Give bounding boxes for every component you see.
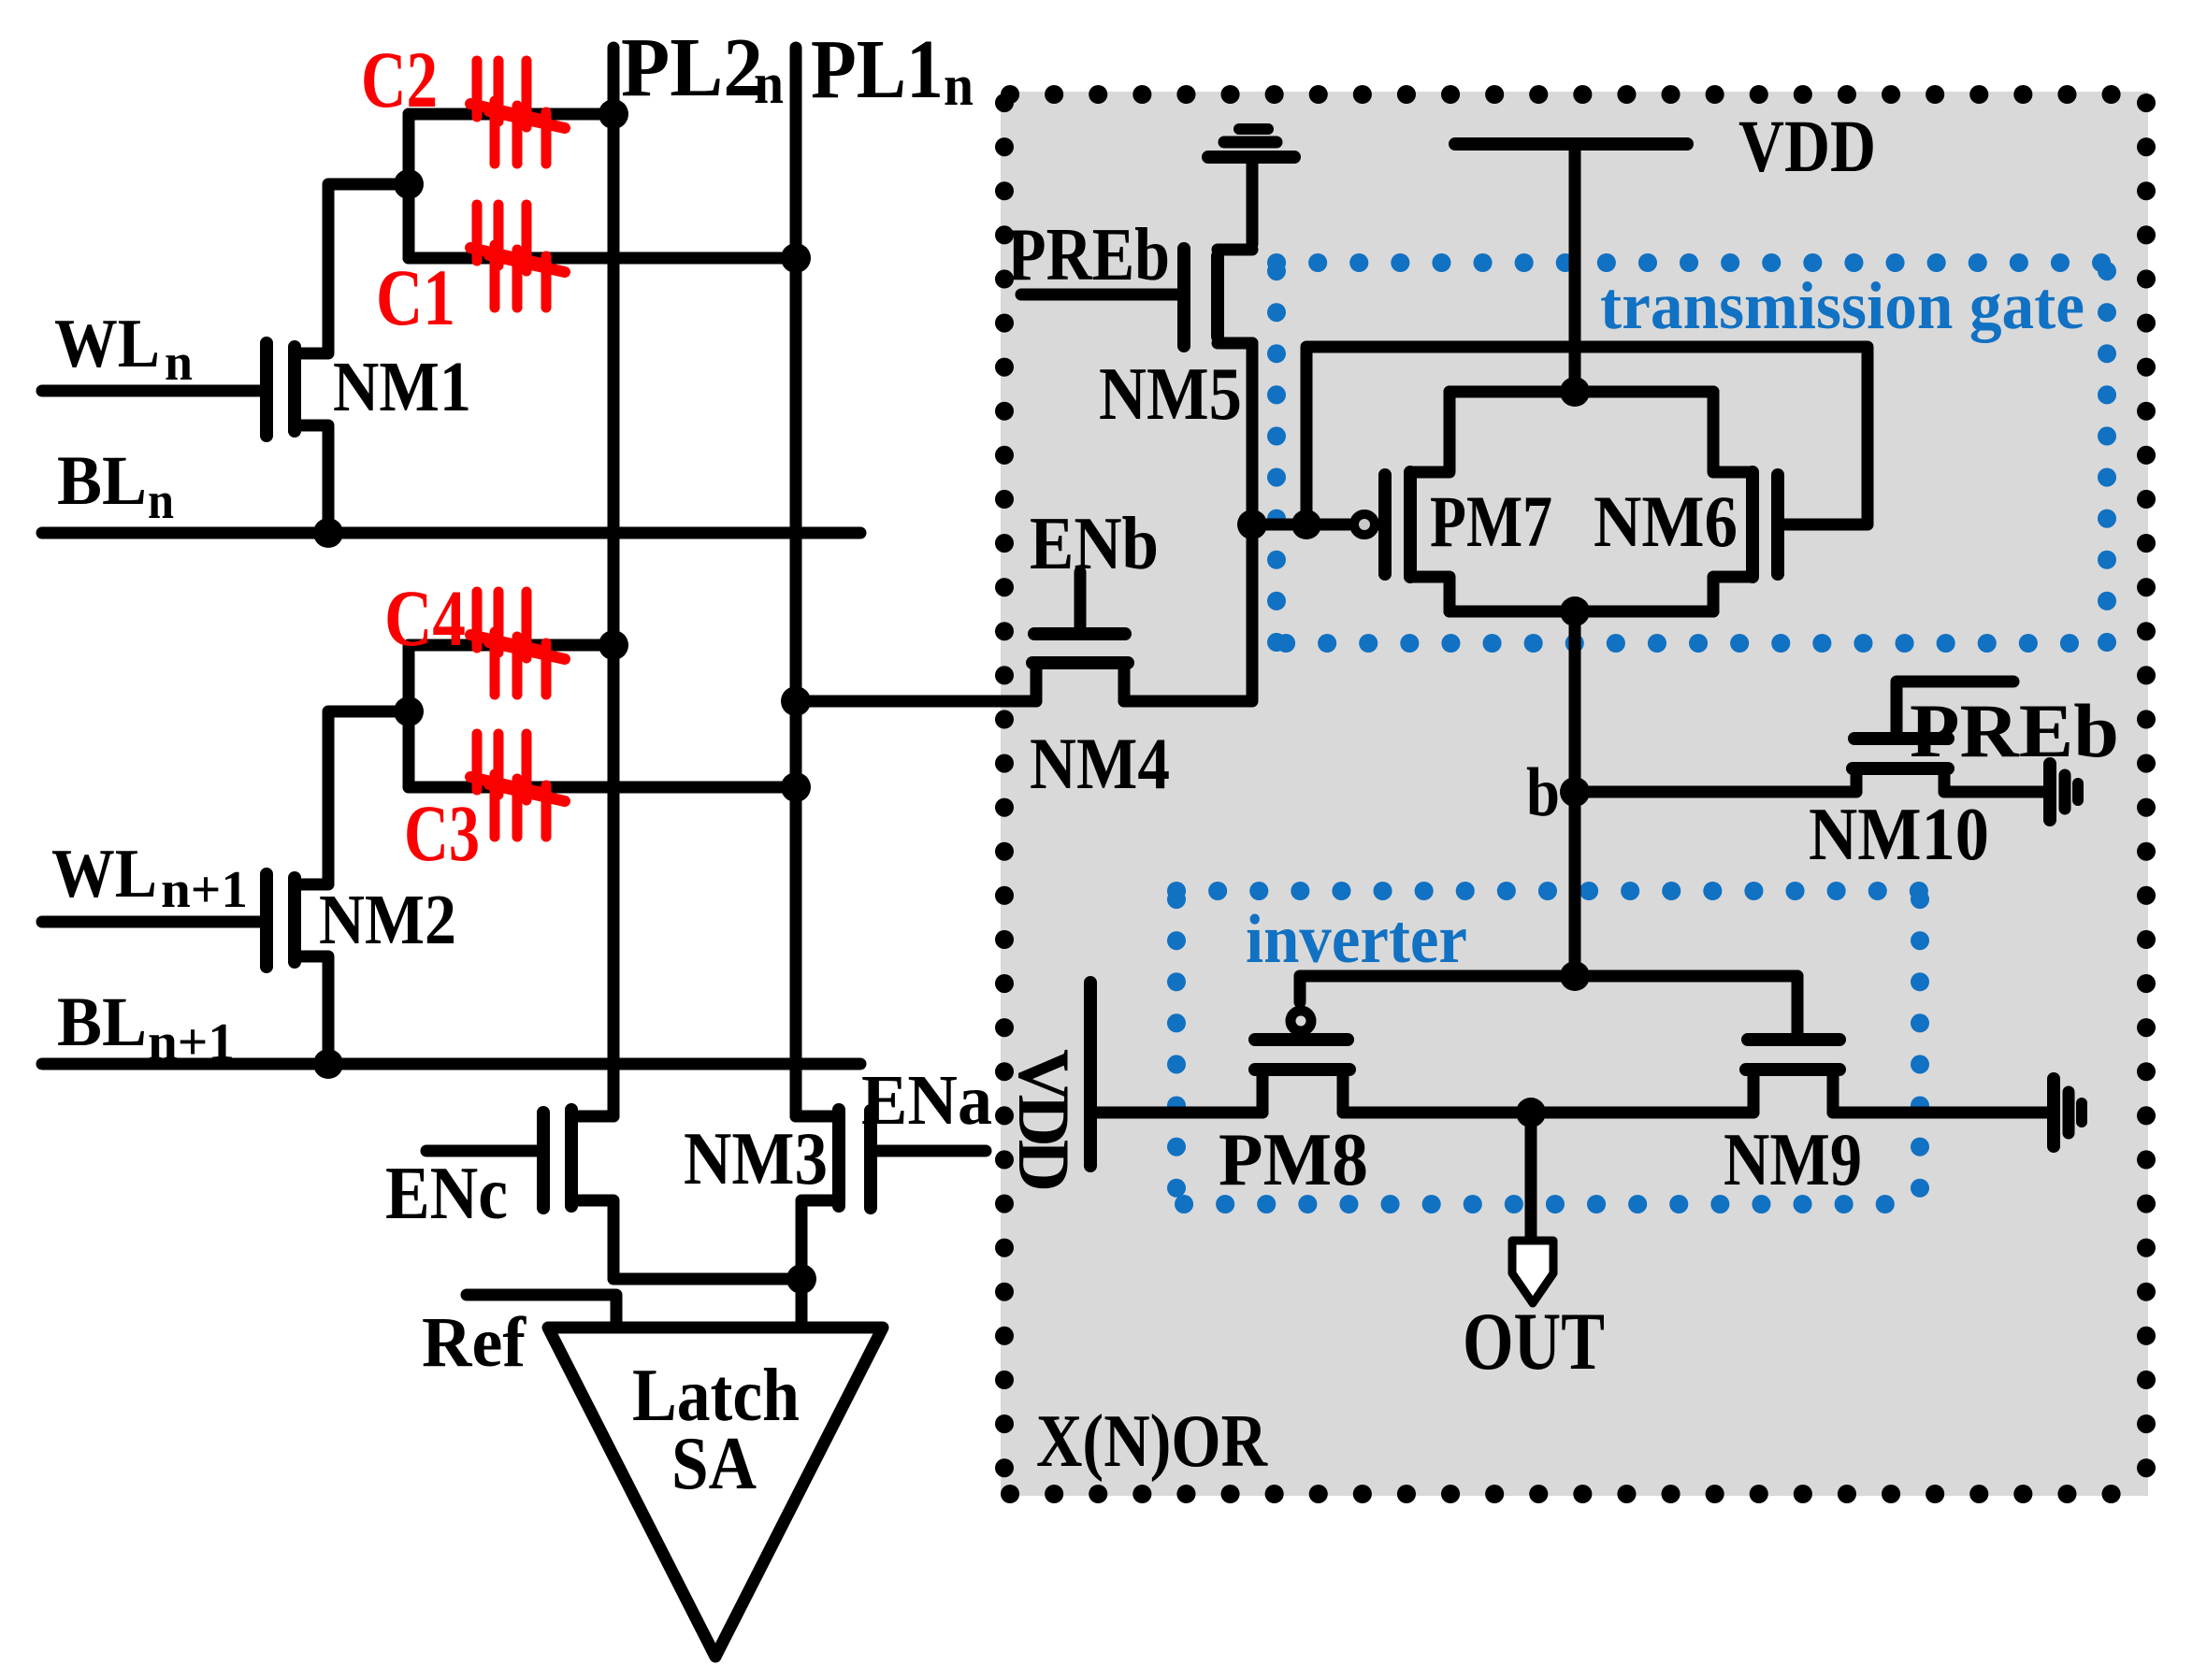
svg-text:PREb: PREb	[1910, 688, 2119, 773]
wire NM1 source to BLn	[295, 425, 328, 533]
wire C3 row to PL1n	[409, 782, 796, 794]
wire PM8 drain step	[1337, 1070, 1349, 1113]
svg-text:Ref: Ref	[422, 1303, 527, 1382]
transistor NM10 gate bar	[1854, 732, 1948, 745]
transistor PM8 channel bar	[1255, 1063, 1349, 1076]
svg-text:OUT: OUT	[1463, 1297, 1605, 1387]
svg-text:NM3: NM3	[684, 1118, 828, 1200]
transistor NM1 channel bar	[288, 347, 301, 431]
transistor NM10 channel bar	[1853, 762, 1948, 775]
wire C1 row to PL1n	[409, 252, 796, 265]
ground symbol right of NM9	[2047, 1079, 2060, 1146]
node junction inverter input	[1560, 961, 1590, 991]
transistor NM4 channel bar	[1032, 656, 1128, 669]
wire NM10 source step	[1851, 768, 1863, 792]
wire NM9 drain step	[1827, 1070, 1839, 1113]
svg-text:n: n	[148, 472, 174, 530]
wire NM5 source step	[1218, 337, 1252, 350]
wire word line WLn	[42, 385, 261, 397]
node junction C3 on PL1n	[781, 772, 811, 802]
svg-text:n: n	[165, 334, 193, 392]
node junction sense wire on PL1n	[781, 686, 811, 716]
svg-text:PM8: PM8	[1219, 1119, 1368, 1201]
wire C4 row to PL2n	[409, 639, 613, 652]
transistor NM5 channel bar	[1211, 256, 1224, 337]
wire NM9 gate stem	[1792, 976, 1804, 1034]
wire ENb gate stem	[1075, 572, 1087, 626]
wire NM6 gate lead	[1778, 519, 1868, 531]
wire NM10 drain to ground	[1944, 786, 2044, 798]
node junction a left	[1237, 510, 1267, 539]
capacitor C3	[470, 734, 565, 837]
svg-text:NM6: NM6	[1594, 481, 1738, 562]
wire VDD stem to transmission gate	[1569, 144, 1581, 392]
wire sense node from PL1n to NM4	[796, 696, 1036, 708]
wire NM4 drain step	[1118, 663, 1131, 701]
svg-text:n+1: n+1	[148, 1013, 235, 1071]
svg-text:NM5: NM5	[1099, 353, 1242, 436]
wire PREb gate lead of NM5	[1021, 289, 1178, 301]
svg-text:inverter: inverter	[1246, 901, 1467, 978]
wire NM3 left source step	[571, 1200, 801, 1279]
svg-text:NM10: NM10	[1809, 794, 1989, 876]
wire NM4 source step	[1031, 663, 1043, 701]
wire PM8 gate stem	[1294, 976, 1306, 1002]
transmission gate dotted box	[1277, 263, 2107, 643]
svg-text:PL1: PL1	[811, 23, 944, 116]
wire OUT stem	[1525, 1113, 1537, 1241]
wire PREb gate lead of NM10	[1897, 682, 2013, 739]
X(N)OR block shaded background	[1001, 92, 2148, 1496]
node junction NM3 output	[786, 1264, 816, 1294]
wire NM5 drain to ground	[1247, 164, 1259, 244]
node junction transmission gate bottom	[1560, 596, 1590, 626]
wire NM3 right drain step from PL1n	[796, 1111, 839, 1123]
wire PM8 source step	[1257, 1070, 1269, 1113]
node PM7 gate bubble	[1354, 514, 1375, 535]
svg-text:C3: C3	[404, 788, 480, 878]
transistor NM3 gate bar ENc side	[537, 1113, 550, 1208]
transistor NM3 gate bar ENa side	[864, 1111, 877, 1208]
transistor NM3 left channel bar	[565, 1110, 578, 1206]
OUT pin marker	[1512, 1241, 1553, 1303]
wire Ref input to latch	[467, 1295, 616, 1328]
capacitor C2	[470, 61, 565, 164]
svg-text:b: b	[1526, 754, 1560, 831]
transistor NM2 channel bar	[288, 878, 301, 962]
svg-text:WL: WL	[54, 306, 160, 382]
svg-text:n: n	[754, 52, 784, 116]
svg-text:ENc: ENc	[385, 1153, 508, 1235]
wire NM2 drain to storage node	[295, 711, 409, 884]
wire bit line BLn	[42, 527, 860, 539]
node PM8 gate bubble	[1291, 1011, 1311, 1031]
wire node b vertical	[1569, 611, 1581, 976]
wire NM5 source down to node a	[1247, 343, 1259, 524]
wire ENc gate lead	[426, 1145, 538, 1157]
transistor NM9 gate bar	[1748, 1033, 1839, 1046]
wire inverter input rail	[1300, 970, 1797, 983]
wire storage node vertical C2-C1	[403, 114, 415, 258]
wire VDD to PM8	[1090, 1107, 1262, 1119]
svg-text:WL: WL	[51, 836, 157, 912]
wire bit line BLn+1	[42, 1058, 860, 1070]
node junction NM2 source on BLn+1	[313, 1049, 343, 1079]
wire transmission gate top bar	[1450, 386, 1713, 398]
wire NM4 drain to node a	[1124, 524, 1252, 701]
node junction a right	[1291, 510, 1321, 539]
transistor NM4 gate bar	[1034, 627, 1125, 640]
wire plate line PL1n	[790, 48, 802, 1116]
svg-text:C1: C1	[376, 252, 455, 342]
node junction C1 on PL1n	[781, 243, 811, 273]
wire NM1 drain to storage node	[295, 184, 409, 353]
transistor PM7 gate bar	[1378, 475, 1392, 574]
transistor NM9 channel bar	[1746, 1063, 1839, 1076]
transistor PM7 body	[1410, 392, 1450, 472]
svg-text:n: n	[944, 54, 974, 118]
svg-text:PL2: PL2	[621, 22, 763, 114]
wire inverter output rail	[1343, 1107, 1753, 1119]
wire NM9 to ground	[1833, 1107, 2048, 1119]
svg-text:BL: BL	[57, 442, 147, 520]
wire NM2 source to BLn+1	[295, 956, 328, 1064]
svg-text:NM9: NM9	[1724, 1119, 1862, 1201]
wire NM3 right source step	[801, 1200, 839, 1328]
power symbol VDD bar left	[1084, 983, 1097, 1166]
svg-text:X(N)OR: X(N)OR	[1036, 1400, 1268, 1483]
node junction C4 on PL2n	[599, 630, 628, 660]
svg-text:NM4: NM4	[1030, 723, 1170, 804]
ground symbol above NM5	[1208, 151, 1294, 164]
node junction C4-C3 storage	[394, 696, 424, 726]
wire ENa gate lead	[876, 1145, 986, 1157]
wire NM10 drain step	[1939, 768, 1951, 792]
wire node a up to NM6 gate rail	[1306, 347, 1868, 524]
ground symbol right of NM10	[2043, 764, 2056, 820]
wire C2 top plate row to PL2n	[409, 108, 613, 121]
svg-text:VDD: VDD	[1738, 107, 1876, 188]
svg-text:ENb: ENb	[1030, 503, 1159, 585]
transistor NM5 gate bar	[1177, 249, 1190, 346]
transistor NM2 gate bar	[260, 874, 273, 967]
wire NM3 left drain step from PL2n	[571, 1111, 613, 1123]
svg-text:C2: C2	[361, 35, 438, 124]
svg-text:n+1: n+1	[161, 861, 248, 919]
wire plate line PL2n	[608, 48, 620, 1116]
wire NM9 source step	[1748, 1070, 1760, 1113]
svg-text:PM7: PM7	[1430, 481, 1552, 562]
svg-text:transmission gate: transmission gate	[1600, 268, 2084, 343]
wire word line WLn+1	[42, 916, 261, 928]
node junction transmission gate top	[1560, 377, 1590, 407]
svg-text:C4: C4	[384, 573, 466, 663]
X(N)OR block dotted border	[1004, 94, 2146, 1494]
svg-text:ENa: ENa	[861, 1061, 992, 1140]
svg-text:PREb: PREb	[1007, 214, 1170, 296]
wire storage node vertical C4-C3	[403, 645, 415, 787]
capacitor C4	[470, 592, 565, 695]
wire transmission gate bottom bar	[1450, 606, 1713, 618]
transistor NM6 body	[1713, 392, 1753, 472]
transistor NM3 right channel bar	[832, 1110, 845, 1206]
node b junction	[1560, 777, 1590, 807]
op-amp latch sense amplifier triangle	[548, 1328, 883, 1657]
svg-text:VDD: VDD	[1003, 1049, 1085, 1189]
wire node a to PM7 gate	[1252, 519, 1349, 531]
svg-text:NM2: NM2	[319, 881, 456, 959]
transistor PM8 gate bar	[1255, 1033, 1348, 1046]
node junction C2-C1 storage	[394, 169, 424, 199]
node junction inverter output OUT	[1516, 1098, 1546, 1127]
svg-text:NM1: NM1	[333, 348, 471, 426]
transistor NM6 gate bar	[1771, 475, 1784, 574]
wire NM5 drain step	[1218, 244, 1252, 256]
capacitor C1	[470, 205, 565, 308]
transistor NM1 gate bar	[260, 343, 273, 436]
svg-text:SA: SA	[671, 1423, 757, 1505]
inverter dotted box	[1176, 891, 1920, 1204]
node junction C2 on PL2n	[599, 99, 628, 129]
svg-text:BL: BL	[57, 984, 147, 1061]
wire VDD rail top	[1455, 137, 1687, 151]
node junction NM1 source on BLn	[313, 518, 343, 548]
wire node b to NM10	[1575, 786, 1856, 798]
